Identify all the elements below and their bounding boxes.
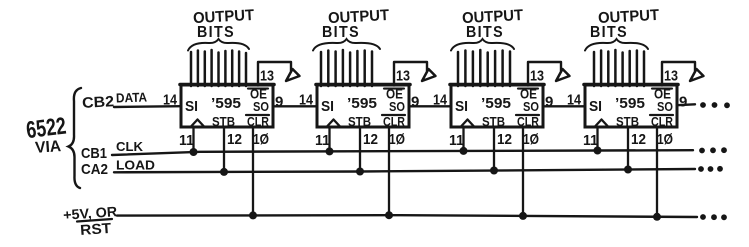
wire U4 pin 11 (shift clock) to CLK bus bbox=[596, 127, 598, 151]
svg-text:CLR: CLR bbox=[517, 115, 539, 129]
wire LOAD bus from CA2 bbox=[114, 169, 695, 172]
shift register U3 body (74HC595) bbox=[451, 85, 543, 127]
svg-text:9: 9 bbox=[679, 94, 687, 111]
junction U2 pin 12 / LOAD bus bbox=[356, 168, 364, 176]
continuation dots, +5V/RST bus bbox=[700, 214, 727, 220]
junction U2 pin 11 / CLK bus bbox=[326, 147, 334, 155]
wire CLK bus from CB1 bbox=[112, 150, 693, 155]
svg-text:BITS: BITS bbox=[466, 24, 504, 41]
svg-text:CB1: CB1 bbox=[81, 145, 107, 162]
svg-text:’595: ’595 bbox=[211, 96, 241, 112]
ground arrow (U1 OE) bbox=[286, 69, 300, 81]
wire U1 pin 12 (latch) to LOAD bus bbox=[223, 127, 225, 172]
junction U3 pin 10 / +5V bus bbox=[519, 212, 527, 220]
svg-text:14: 14 bbox=[567, 92, 582, 109]
svg-text:13: 13 bbox=[396, 68, 410, 85]
continuation dots, CLK bus bbox=[699, 147, 727, 153]
junction U1 pin 11 / CLK bus bbox=[190, 148, 198, 156]
svg-text:SO: SO bbox=[253, 99, 269, 114]
svg-text:11: 11 bbox=[583, 132, 598, 149]
svg-text:SI: SI bbox=[589, 98, 602, 115]
svg-text:’595: ’595 bbox=[615, 96, 645, 112]
shift register U2 body (74HC595) bbox=[317, 85, 409, 127]
svg-text:13: 13 bbox=[664, 68, 678, 85]
shift register U4 body (74HC595) bbox=[585, 85, 677, 127]
wire U2 OE (pin 13) to ground arrow bbox=[394, 62, 427, 86]
svg-text:9: 9 bbox=[275, 94, 283, 111]
wire U2 pin 10 (clear) to +5V/RST bus bbox=[388, 127, 390, 215]
wire U4 pin 10 (clear) to +5V/RST bus bbox=[656, 127, 658, 217]
svg-text:BITS: BITS bbox=[590, 24, 628, 41]
svg-text:9: 9 bbox=[411, 94, 419, 111]
svg-text:12: 12 bbox=[363, 131, 378, 148]
ground arrow (U3 OE) bbox=[556, 69, 570, 81]
svg-text:CLR: CLR bbox=[383, 115, 405, 129]
continuation dots, LOAD bus bbox=[698, 166, 723, 172]
U1 output pins (8 parallel output bits) bbox=[191, 50, 246, 86]
wire U3 pin 11 (shift clock) to CLK bus bbox=[462, 127, 464, 151]
IC label 6522 VIA bbox=[25, 113, 68, 157]
svg-text:SO: SO bbox=[389, 99, 405, 114]
svg-text:BITS: BITS bbox=[322, 24, 360, 41]
svg-text:9: 9 bbox=[545, 94, 553, 111]
svg-text:11: 11 bbox=[449, 132, 464, 149]
svg-text:1Ø: 1Ø bbox=[253, 131, 269, 148]
brace over U2 output bits bbox=[313, 39, 380, 51]
svg-text:SI: SI bbox=[321, 98, 334, 115]
U1 pin label CLR (overline) bbox=[246, 115, 269, 129]
wire U4 OE (pin 13) to ground arrow bbox=[662, 62, 695, 86]
U3 clock edge triangle (pin 11) bbox=[461, 120, 474, 127]
brace over U4 output bits bbox=[585, 39, 648, 51]
svg-text:1Ø: 1Ø bbox=[523, 131, 539, 148]
wire U1 pin 11 (shift clock) to CLK bus bbox=[192, 127, 194, 152]
svg-text:DATA: DATA bbox=[116, 89, 148, 105]
svg-text:CB2: CB2 bbox=[82, 93, 115, 112]
wire U1 pin 10 (clear) to +5V/RST bus bbox=[252, 127, 254, 215]
U3 pin label OE (overline) bbox=[518, 87, 538, 102]
U3 output pins (8 parallel output bits) bbox=[458, 50, 510, 86]
svg-text:CLR: CLR bbox=[651, 115, 673, 129]
junction U2 pin 10 / +5V bus bbox=[385, 211, 393, 219]
junction U4 pin 11 / CLK bus bbox=[594, 147, 602, 155]
junction U4 pin 12 / LOAD bus bbox=[624, 166, 632, 174]
junction U1 pin 12 / LOAD bus bbox=[220, 168, 228, 176]
U4 clock edge triangle (pin 11) bbox=[595, 120, 608, 127]
svg-text:12: 12 bbox=[227, 131, 242, 148]
U2 pin label OE (overline) bbox=[384, 87, 404, 102]
svg-text:SI: SI bbox=[455, 98, 468, 115]
wire +5V / RST bus bbox=[117, 215, 697, 217]
wire U4 SO (pin 9) continues to next stage bbox=[677, 103, 695, 106]
U1 clock edge triangle (pin 11) bbox=[191, 120, 204, 127]
label OUTPUT BITS (U4) bbox=[590, 7, 660, 41]
junction U3 pin 11 / CLK bus bbox=[460, 147, 468, 155]
wire U2 SO (pin 9) to U3 SI (pin 14) bbox=[409, 105, 451, 107]
svg-text:14: 14 bbox=[163, 92, 178, 109]
wire U3 OE (pin 13) to ground arrow bbox=[528, 62, 561, 86]
svg-text:CLR: CLR bbox=[247, 115, 269, 129]
svg-text:1Ø: 1Ø bbox=[389, 131, 405, 148]
svg-text:SO: SO bbox=[523, 99, 539, 114]
brace over U1 output bits bbox=[188, 39, 249, 51]
svg-text:13: 13 bbox=[260, 68, 274, 85]
U4 output pins (8 parallel output bits) bbox=[594, 50, 644, 86]
U4 pin label OE (overline) bbox=[652, 87, 672, 102]
wire DATA from CB2 to U1 pin 14 (SI) bbox=[114, 105, 181, 108]
wire U1 SO (pin 9) to U2 SI (pin 14) bbox=[273, 105, 317, 107]
ground arrow (U4 OE) bbox=[690, 69, 704, 81]
continuation dots, serial data out bbox=[700, 102, 730, 108]
svg-text:12: 12 bbox=[631, 131, 646, 148]
junction U4 pin 10 / +5V bus bbox=[653, 213, 661, 221]
wire U1 OE (pin 13) to ground arrow bbox=[258, 62, 291, 86]
brace over U3 output bits bbox=[451, 39, 514, 51]
svg-text:14: 14 bbox=[433, 92, 448, 109]
svg-text:CA2: CA2 bbox=[81, 161, 108, 178]
wire U3 SO (pin 9) to U4 SI (pin 14) bbox=[543, 105, 585, 107]
junction U3 pin 12 / LOAD bus bbox=[490, 167, 498, 175]
shift register U1 body (74HC595) bbox=[181, 85, 273, 127]
svg-text:’595: ’595 bbox=[347, 96, 377, 112]
label OUTPUT BITS (U2) bbox=[322, 7, 390, 41]
net label RST (active low, overline) bbox=[77, 219, 112, 239]
wire U3 pin 12 (latch) to LOAD bus bbox=[493, 127, 495, 171]
U1 pin label OE (overline) bbox=[248, 87, 268, 102]
svg-text:SO: SO bbox=[657, 99, 673, 114]
svg-text:BITS: BITS bbox=[197, 24, 235, 41]
svg-text:1Ø: 1Ø bbox=[657, 131, 673, 148]
svg-text:’595: ’595 bbox=[481, 96, 511, 112]
U2 clock edge triangle (pin 11) bbox=[327, 120, 340, 127]
wire U3 pin 10 (clear) to +5V/RST bus bbox=[522, 127, 524, 216]
svg-text:RST: RST bbox=[80, 221, 112, 239]
U2 output pins (8 parallel output bits) bbox=[321, 50, 372, 86]
svg-text:14: 14 bbox=[299, 92, 314, 109]
svg-text:SI: SI bbox=[185, 98, 198, 115]
ground arrow (U2 OE) bbox=[422, 69, 436, 81]
label OUTPUT BITS (U1) bbox=[193, 7, 255, 41]
U2 pin label CLR (overline) bbox=[382, 115, 405, 129]
wire U4 pin 12 (latch) to LOAD bus bbox=[627, 127, 629, 170]
svg-text:11: 11 bbox=[179, 132, 194, 149]
svg-text:12: 12 bbox=[497, 131, 512, 148]
U3 pin label CLR (overline) bbox=[516, 115, 539, 129]
wire U2 pin 12 (latch) to LOAD bus bbox=[359, 127, 361, 172]
junction U1 pin 10 / +5V bus bbox=[249, 211, 257, 219]
svg-text:13: 13 bbox=[530, 68, 544, 85]
svg-text:CLK: CLK bbox=[116, 139, 144, 154]
wire U2 pin 11 (shift clock) to CLK bus bbox=[328, 127, 330, 151]
svg-text:11: 11 bbox=[315, 132, 330, 149]
svg-text:LOAD: LOAD bbox=[116, 158, 155, 173]
U4 pin label CLR (overline) bbox=[650, 115, 673, 129]
label OUTPUT BITS (U3) bbox=[462, 7, 524, 41]
svg-text:VIA: VIA bbox=[35, 138, 63, 157]
brace grouping 6522 VIA port pins bbox=[69, 88, 82, 188]
